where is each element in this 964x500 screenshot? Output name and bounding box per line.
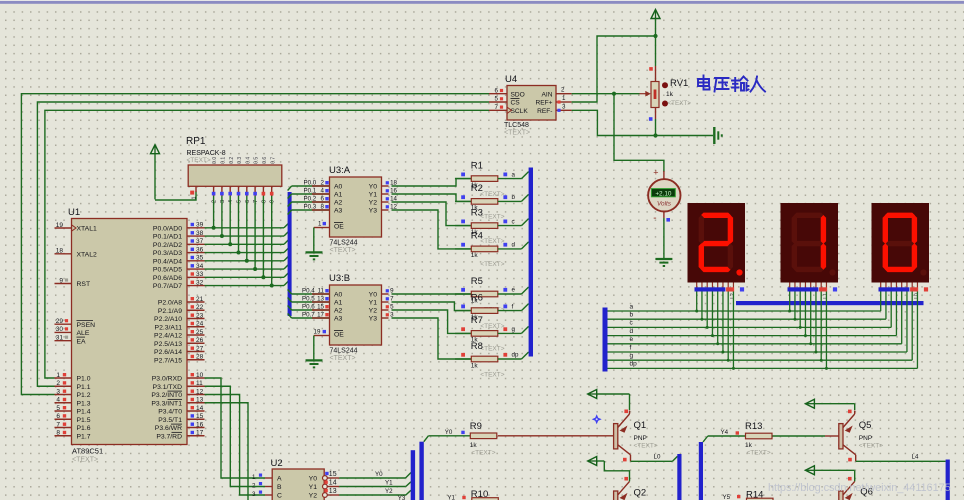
- display 3 pins and state bars: [879, 283, 929, 299]
- svg-text:5: 5: [56, 405, 60, 412]
- svg-text:19: 19: [56, 222, 64, 229]
- svg-text:0.0: 0.0: [212, 157, 218, 164]
- power symbol (Q1 emitter): [588, 390, 630, 411]
- svg-text:RP1: RP1: [186, 136, 206, 147]
- svg-text:P2.2/A10: P2.2/A10: [154, 316, 182, 323]
- resistor R10 1k: [471, 489, 499, 500]
- wire RP1 pin 5 to P0.3: [237, 196, 241, 255]
- power symbol (Q6 emitter): [805, 466, 854, 482]
- wire P3.6 to U2 C: [205, 395, 266, 496]
- svg-text:3: 3: [252, 491, 256, 498]
- bus L (right): [699, 442, 703, 500]
- svg-text:RST: RST: [77, 281, 91, 288]
- svg-text:<TEXT>: <TEXT>: [859, 443, 883, 450]
- wire bus to U3:A A0 (P0.0): [288, 180, 330, 191]
- wire U4 AIN to RV1 wiper: [572, 91, 651, 97]
- wire P0.3 row to bus: [205, 248, 289, 253]
- svg-text:P0.5: P0.5: [302, 296, 315, 303]
- svg-text:SCLK: SCLK: [511, 108, 529, 115]
- svg-text:32: 32: [196, 279, 204, 286]
- svg-text:A0: A0: [334, 184, 343, 191]
- svg-text:13: 13: [196, 397, 204, 404]
- svg-text:Y1: Y1: [385, 480, 393, 487]
- rail d to displays: [608, 292, 897, 338]
- svg-text:8: 8: [261, 200, 267, 203]
- wire bus to R14 (Y5): [723, 494, 741, 500]
- svg-text:P0.0/AD0: P0.0/AD0: [153, 225, 182, 232]
- transistor Q5 PNP: [839, 410, 883, 462]
- svg-text:8: 8: [56, 430, 60, 437]
- svg-text:P0.2: P0.2: [304, 196, 317, 203]
- svg-text:0.3: 0.3: [237, 157, 243, 164]
- svg-text:31: 31: [56, 335, 64, 342]
- wire U4 REF- to ground rail: [572, 110, 713, 135]
- svg-text:P1.1: P1.1: [77, 384, 91, 391]
- wire P0.1 row to bus: [205, 232, 289, 237]
- svg-text:RV1: RV1: [670, 78, 688, 89]
- svg-text:P3.7/RD: P3.7/RD: [156, 433, 182, 440]
- wire U3:A Y1 to R2: [382, 188, 472, 202]
- svg-text:U1: U1: [68, 207, 80, 218]
- power symbol (Q2 emitter): [588, 457, 630, 482]
- svg-text:Y0: Y0: [445, 429, 453, 436]
- resistor R2 1k: [455, 183, 529, 221]
- svg-text:P1.3: P1.3: [77, 400, 91, 407]
- svg-text:1k: 1k: [666, 91, 674, 98]
- svg-text:P1.7: P1.7: [77, 433, 91, 440]
- svg-text:18: 18: [56, 248, 64, 255]
- svg-text:P0.3/AD3: P0.3/AD3: [153, 250, 182, 257]
- svg-text:L0: L0: [654, 454, 661, 461]
- svg-text:74LS244: 74LS244: [330, 348, 358, 355]
- svg-text:Q1: Q1: [634, 420, 647, 431]
- wire Q5 collector L4 to bus: [848, 454, 945, 462]
- resistor R14 1k: [746, 490, 773, 500]
- svg-text:0.7: 0.7: [270, 157, 276, 164]
- bus Y (left): [411, 450, 415, 500]
- svg-text:39: 39: [196, 222, 204, 229]
- svg-text:P3.2/INT0: P3.2/INT0: [151, 392, 182, 399]
- marker (origin): [592, 414, 602, 424]
- svg-text:<TEXT>: <TEXT>: [330, 355, 356, 362]
- svg-text:0.4: 0.4: [245, 157, 251, 164]
- rail g to displays: [608, 292, 913, 362]
- wire bus to U3:A A1 (P0.1): [288, 188, 330, 199]
- svg-text:P0.0: P0.0: [304, 180, 317, 187]
- svg-text:Y0: Y0: [375, 471, 383, 478]
- svg-text:a: a: [630, 303, 634, 310]
- wire R13 to Q5 base: [773, 435, 839, 437]
- svg-text:A3: A3: [334, 208, 343, 215]
- wire voltmeter - to ground: [664, 212, 670, 260]
- resistor R9 1k: [470, 421, 497, 456]
- svg-text:2: 2: [321, 180, 325, 187]
- svg-text:P3.1/TXD: P3.1/TXD: [153, 384, 183, 391]
- svg-text:27: 27: [196, 345, 204, 352]
- svg-text:P0.5/AD5: P0.5/AD5: [153, 267, 182, 274]
- svg-text:9: 9: [59, 277, 63, 284]
- resistor R5 1k: [455, 276, 529, 314]
- svg-text:TLC548: TLC548: [504, 122, 529, 129]
- resistor R6 1k: [455, 292, 529, 330]
- svg-text:<TEXT>: <TEXT>: [480, 261, 504, 268]
- wire U3:B OE to ground: [314, 328, 330, 360]
- svg-text:P2.7/A15: P2.7/A15: [154, 357, 182, 364]
- wire U3:B Y0 to R5: [382, 288, 472, 295]
- wire U3:B Y3 to R8: [382, 312, 472, 359]
- svg-text:b: b: [630, 312, 634, 319]
- wire U3:B Y1 to R6: [382, 296, 472, 311]
- svg-text:A2: A2: [334, 200, 343, 207]
- svg-text:f: f: [512, 303, 514, 310]
- svg-text:B: B: [277, 484, 282, 491]
- rail b to displays: [608, 292, 886, 321]
- svg-text:dp: dp: [512, 352, 519, 359]
- svg-text:2: 2: [252, 483, 256, 490]
- svg-text:<TEXT>: <TEXT>: [747, 450, 771, 457]
- svg-text:4: 4: [56, 397, 60, 404]
- svg-text:15: 15: [196, 413, 204, 420]
- svg-text:+2.10: +2.10: [655, 191, 672, 198]
- svg-text:P0.4/AD4: P0.4/AD4: [153, 258, 182, 265]
- svg-text:19: 19: [314, 328, 321, 335]
- wire P3.5 to U2 B: [205, 386, 266, 486]
- svg-text:Y0: Y0: [369, 292, 378, 299]
- svg-text:Y1: Y1: [369, 300, 378, 307]
- bus Y (right): [419, 442, 423, 500]
- svg-text:P0.6: P0.6: [302, 304, 315, 311]
- svg-text:Y1: Y1: [447, 495, 455, 500]
- svg-text:g: g: [630, 353, 634, 360]
- svg-text:24: 24: [196, 321, 204, 328]
- svg-text:1: 1: [252, 474, 256, 481]
- wire bus to U3:B A0 (P0.4): [288, 288, 330, 295]
- buffer U3:B 74LS244: [329, 273, 382, 362]
- svg-text:1k: 1k: [471, 362, 479, 369]
- svg-text:A1: A1: [334, 300, 343, 307]
- svg-text:0.1: 0.1: [221, 157, 227, 164]
- svg-text:<TEXT>: <TEXT>: [480, 191, 504, 198]
- 7-segment display 1 (digit 2): [688, 203, 746, 283]
- svg-text:30: 30: [56, 326, 64, 333]
- rail a to displays: [608, 292, 881, 313]
- svg-text:a: a: [512, 171, 516, 178]
- resistor R13 1k: [745, 421, 772, 456]
- power symbol (RV1 top): [651, 10, 660, 67]
- svg-text:15: 15: [329, 471, 337, 478]
- svg-text:9: 9: [270, 200, 276, 203]
- svg-text:5: 5: [237, 200, 243, 203]
- ground (voltmeter): [655, 259, 672, 266]
- resistor R3 1k: [455, 207, 529, 245]
- wire bus to U3:A A2 (P0.2): [288, 196, 330, 207]
- svg-text:P1.5: P1.5: [77, 417, 91, 424]
- ground (U3:B OE): [306, 360, 323, 367]
- wire bus to U3:B A3 (P0.7): [288, 312, 330, 319]
- wire bus to R13 (Y4): [703, 429, 746, 442]
- svg-text:P3.4/T0: P3.4/T0: [158, 409, 182, 416]
- bus L4 (far right): [946, 460, 950, 500]
- svg-text:<TEXT>: <TEXT>: [480, 323, 504, 330]
- wire P0.5 row to bus: [205, 265, 289, 270]
- svg-text:22: 22: [196, 304, 204, 311]
- svg-text:6: 6: [495, 87, 499, 94]
- svg-text:e: e: [512, 287, 516, 294]
- svg-text:REF-: REF-: [537, 108, 552, 115]
- svg-text:<TEXT>: <TEXT>: [187, 157, 211, 164]
- svg-text:3: 3: [56, 388, 60, 395]
- svg-text:34: 34: [196, 263, 204, 270]
- svg-text:3: 3: [220, 200, 226, 203]
- svg-text:Volts: Volts: [657, 200, 672, 207]
- wire RP1 pin 4 to P0.2: [228, 196, 232, 246]
- wire U3:B Y2 to R7: [382, 304, 472, 334]
- svg-text:Y3: Y3: [369, 208, 378, 215]
- svg-text:5: 5: [495, 96, 499, 103]
- wire bus to R9 (Y0): [424, 429, 471, 442]
- svg-text:R8: R8: [471, 341, 483, 352]
- svg-text:R1: R1: [471, 160, 483, 171]
- svg-text:R5: R5: [471, 276, 483, 287]
- svg-text:23: 23: [196, 312, 204, 319]
- svg-text:PNP: PNP: [634, 435, 647, 442]
- svg-text:1k: 1k: [471, 252, 479, 259]
- svg-text:R4: R4: [471, 231, 483, 242]
- svg-text:R13: R13: [745, 421, 762, 432]
- svg-text:26: 26: [196, 337, 204, 344]
- svg-text:1: 1: [56, 372, 60, 379]
- svg-text:4: 4: [228, 200, 234, 203]
- resistor pack RP1 RESPACK-8: [186, 136, 282, 203]
- power symbol (RP1 supply): [151, 145, 160, 200]
- svg-text:P1.0: P1.0: [77, 376, 91, 383]
- bus L (left): [677, 454, 681, 500]
- svg-text:P2.5/A13: P2.5/A13: [154, 341, 182, 348]
- wire P3.7 down: [205, 403, 249, 500]
- svg-text:Y0: Y0: [309, 476, 318, 483]
- svg-text:PNP: PNP: [859, 435, 872, 442]
- wire RP1 pin 3 to P0.1: [220, 196, 224, 238]
- svg-text:P2.0/A8: P2.0/A8: [158, 300, 182, 307]
- wire P0.0 row to bus: [205, 223, 289, 228]
- wire RP1 pin 2 to P0.0: [212, 196, 216, 230]
- svg-text:R7: R7: [471, 315, 483, 326]
- svg-text:<TEXT>: <TEXT>: [480, 238, 504, 245]
- svg-text:15: 15: [317, 304, 324, 311]
- svg-text:P0.4: P0.4: [302, 288, 315, 295]
- svg-text:dp: dp: [630, 361, 638, 368]
- rail f to displays: [608, 292, 907, 354]
- bus vertical (segment rails feed): [603, 308, 608, 372]
- svg-text:U4: U4: [505, 74, 517, 85]
- ground (right of RV1): [714, 127, 722, 144]
- svg-text:Y3: Y3: [398, 495, 406, 500]
- resistor R8 1k: [455, 341, 529, 379]
- microcontroller U1 AT89C51: [55, 207, 205, 464]
- bus horizontal under displays: [736, 301, 924, 305]
- svg-text:28: 28: [196, 354, 204, 361]
- wire RP1 pin 7 to P0.5: [253, 196, 257, 271]
- wire bus to R10 (Y1): [447, 495, 465, 500]
- svg-text:1k: 1k: [470, 442, 478, 449]
- svg-text:b: b: [512, 194, 516, 201]
- wire AIN junction to voltmeter +: [614, 94, 664, 172]
- svg-text:XTAL1: XTAL1: [77, 226, 97, 233]
- svg-text:<TEXT>: <TEXT>: [504, 130, 530, 137]
- svg-text:13: 13: [329, 488, 337, 495]
- svg-text:P0.7: P0.7: [302, 312, 315, 319]
- wire U4 REF+ to VCC rail: [572, 36, 656, 102]
- wire U3:A OE to ground: [314, 220, 330, 252]
- svg-text:P1.4: P1.4: [77, 409, 91, 416]
- svg-text:P0.7/AD7: P0.7/AD7: [153, 283, 182, 290]
- wire power to RP1 pin 1: [155, 192, 196, 201]
- svg-text:Y2: Y2: [369, 308, 378, 315]
- svg-text:29: 29: [56, 318, 64, 325]
- wire R9 to Q1 base: [498, 435, 614, 437]
- svg-text:37: 37: [196, 238, 204, 245]
- svg-text:U2: U2: [271, 458, 283, 469]
- ground (U3:A OE): [306, 252, 323, 259]
- bus segment-nets (vertical, right of R1-R8): [529, 168, 533, 357]
- transistor Q1 PNP: [614, 410, 658, 462]
- svg-text:P0.1/AD1: P0.1/AD1: [153, 234, 182, 241]
- svg-text:c: c: [512, 218, 515, 225]
- svg-text:<TEXT>: <TEXT>: [480, 346, 504, 353]
- svg-text:ALE: ALE: [77, 330, 90, 337]
- svg-text:Y3: Y3: [369, 316, 378, 323]
- svg-text:C: C: [277, 493, 282, 500]
- svg-text:38: 38: [196, 230, 204, 237]
- 7-segment display 2 (digit 1): [781, 203, 839, 283]
- svg-text:-: -: [653, 213, 656, 224]
- svg-text:g: g: [512, 326, 516, 333]
- display 1 pins and state bars: [695, 283, 745, 299]
- svg-text:P0.1: P0.1: [304, 188, 317, 195]
- display 2 pins and state bars: [788, 283, 838, 299]
- svg-text:2: 2: [56, 380, 60, 387]
- wire U3:A Y0 to R1: [382, 179, 472, 187]
- wire U2 Y1 to bus: [339, 480, 411, 487]
- svg-text:11: 11: [318, 288, 325, 295]
- svg-text:XTAL2: XTAL2: [77, 251, 97, 258]
- wire RP1 pin 8 to P0.6: [261, 196, 265, 279]
- svg-text:<TEXT>: <TEXT>: [471, 449, 495, 456]
- svg-text:<TEXT>: <TEXT>: [480, 214, 504, 221]
- svg-text:13: 13: [317, 296, 324, 303]
- svg-text:16: 16: [196, 421, 204, 428]
- bus P0 (vertical): [288, 192, 292, 316]
- svg-text:R6: R6: [471, 292, 483, 303]
- svg-text:12: 12: [196, 388, 204, 395]
- svg-text:0.2: 0.2: [229, 157, 235, 164]
- svg-text:10: 10: [196, 372, 204, 379]
- wire U2 Y2 to bus: [339, 488, 411, 500]
- svg-text:P3.0/RXD: P3.0/RXD: [152, 376, 182, 383]
- svg-text:A1: A1: [334, 192, 343, 199]
- svg-text:EA: EA: [77, 338, 87, 345]
- svg-text:35: 35: [196, 255, 204, 262]
- rail c to displays: [608, 292, 892, 329]
- wire bus to U3:B A1 (P0.5): [288, 296, 330, 303]
- wire P0.4 row to bus: [205, 256, 289, 261]
- svg-text:1: 1: [562, 95, 566, 102]
- svg-text:P0.3: P0.3: [304, 204, 317, 211]
- svg-text:36: 36: [196, 246, 204, 253]
- svg-text:0.6: 0.6: [262, 157, 268, 164]
- wire P1.0 to U4 SCLK: [45, 110, 489, 378]
- wire P1.2 to U4 SDO: [21, 94, 489, 395]
- svg-text:7: 7: [56, 421, 60, 428]
- power symbol (Q5 emitter): [805, 399, 854, 410]
- svg-text:17: 17: [196, 430, 204, 437]
- svg-text:Q5: Q5: [859, 420, 872, 431]
- voltmeter +2.10 Volts: [648, 168, 680, 224]
- svg-text:OE: OE: [334, 224, 344, 231]
- svg-text:U3:A: U3:A: [329, 165, 351, 176]
- wire Q1 collector L0 to bus: [623, 454, 678, 462]
- svg-text:P0.6/AD6: P0.6/AD6: [153, 275, 182, 282]
- svg-text:CS: CS: [511, 100, 521, 107]
- ADC U4 TLC548: [489, 74, 572, 137]
- svg-text:74LS244: 74LS244: [330, 240, 358, 247]
- 7-segment display 3 (digit 0): [872, 203, 930, 283]
- svg-text:4: 4: [321, 188, 325, 195]
- svg-text:Y0: Y0: [369, 184, 378, 191]
- svg-text:11: 11: [196, 380, 203, 387]
- svg-text:Y5: Y5: [723, 494, 731, 500]
- svg-text:Y2: Y2: [309, 493, 318, 500]
- svg-text:7: 7: [253, 200, 259, 203]
- wire P3.4 to U2 A: [205, 378, 266, 478]
- svg-text:6: 6: [321, 196, 325, 203]
- rail e to displays: [608, 292, 902, 346]
- svg-text:<TEXT>: <TEXT>: [330, 247, 356, 254]
- svg-text:A3: A3: [334, 316, 343, 323]
- svg-text:17: 17: [317, 312, 324, 319]
- svg-text:RESPACK-8: RESPACK-8: [187, 150, 226, 157]
- svg-text:0.5: 0.5: [254, 157, 260, 164]
- wire U2 Y0 to bus: [339, 471, 411, 478]
- svg-text:6: 6: [56, 413, 60, 420]
- svg-text:U3:B: U3:B: [329, 273, 350, 284]
- svg-text:P1.2: P1.2: [77, 392, 91, 399]
- svg-text:<TEXT>: <TEXT>: [634, 443, 658, 450]
- wire bus to U3:A A3 (P0.3): [288, 204, 330, 215]
- svg-text:A2: A2: [334, 308, 343, 315]
- transistor Q6 PNP: [839, 477, 873, 500]
- svg-text:OE: OE: [334, 332, 344, 339]
- svg-text:P0.2/AD2: P0.2/AD2: [153, 242, 182, 249]
- svg-text:1: 1: [192, 196, 198, 199]
- wire U3:A Y3 to R4: [382, 204, 472, 249]
- resistor R1 1k: [455, 160, 529, 198]
- svg-text:<TEXT>: <TEXT>: [72, 457, 98, 464]
- svg-text:SDO: SDO: [511, 91, 525, 98]
- wire RP1 pin 6 to P0.4: [245, 196, 249, 263]
- svg-text:Y4: Y4: [721, 429, 729, 436]
- svg-text:2: 2: [561, 86, 565, 93]
- svg-text:L4: L4: [912, 454, 919, 461]
- rail dp to displays: [608, 292, 918, 370]
- wire P0.2 row to bus: [205, 240, 289, 245]
- svg-text:<TEXT>: <TEXT>: [668, 100, 692, 107]
- svg-text:25: 25: [196, 329, 204, 336]
- svg-text:PSEN: PSEN: [77, 322, 96, 329]
- wire bus to U3:B A2 (P0.6): [288, 304, 330, 311]
- svg-text:d: d: [512, 242, 516, 249]
- svg-text:1: 1: [318, 220, 322, 227]
